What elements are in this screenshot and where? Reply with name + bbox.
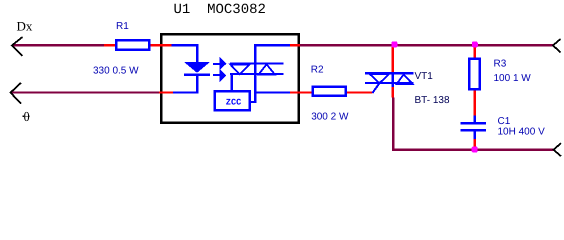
svg-text:100 1 W: 100 1 W xyxy=(494,73,532,84)
svg-text:Dx: Dx xyxy=(17,19,33,34)
svg-text:10H 400 V: 10H 400 V xyxy=(498,127,546,138)
svg-text:R1: R1 xyxy=(116,21,129,32)
svg-text:U1 MOC3082: U1 MOC3082 xyxy=(174,2,266,18)
svg-text:330 0.5 W: 330 0.5 W xyxy=(93,66,139,77)
svg-text:300 2 W: 300 2 W xyxy=(311,111,349,122)
svg-text:R2: R2 xyxy=(311,64,324,75)
svg-text:BT- 138: BT- 138 xyxy=(415,95,450,106)
svg-text:R3: R3 xyxy=(494,59,507,70)
svg-text:VT1: VT1 xyxy=(415,71,434,82)
svg-text:ZCC: ZCC xyxy=(226,97,241,107)
svg-text:C1: C1 xyxy=(498,116,511,127)
